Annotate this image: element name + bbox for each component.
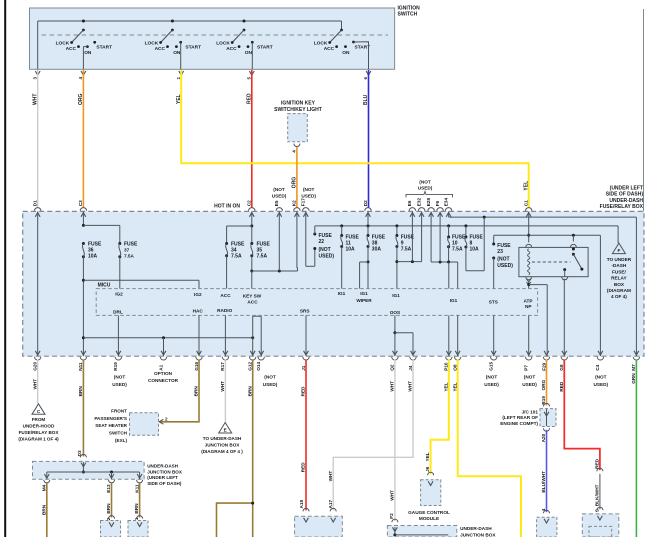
svg-text:WHT: WHT bbox=[390, 490, 395, 501]
svg-text:BRN: BRN bbox=[134, 503, 139, 514]
svg-text:J/C 101: J/C 101 bbox=[522, 409, 539, 414]
svg-text:BRN: BRN bbox=[194, 386, 199, 397]
svg-text:IGNITION KEY: IGNITION KEY bbox=[281, 101, 316, 107]
svg-text:E32: E32 bbox=[416, 197, 421, 206]
svg-text:USED): USED) bbox=[497, 263, 513, 269]
svg-text:J4: J4 bbox=[408, 365, 413, 371]
svg-text:RED: RED bbox=[246, 93, 252, 104]
svg-text:(LEFT REAR OF: (LEFT REAR OF bbox=[502, 415, 538, 420]
svg-text:(NOT: (NOT bbox=[524, 374, 536, 379]
svg-text:7.5A: 7.5A bbox=[452, 247, 463, 253]
svg-text:SEAT HEATER: SEAT HEATER bbox=[95, 423, 127, 428]
svg-text:JUNCTION BOX: JUNCTION BOX bbox=[147, 469, 183, 474]
svg-text:GRN: GRN bbox=[631, 373, 636, 384]
svg-text:E: E bbox=[224, 428, 227, 433]
svg-text:(NOT: (NOT bbox=[264, 374, 276, 379]
svg-text:NP: NP bbox=[525, 304, 532, 309]
svg-text:USED): USED) bbox=[272, 193, 287, 198]
svg-text:WHT: WHT bbox=[328, 471, 333, 482]
svg-text:SIDE OF DASH): SIDE OF DASH) bbox=[606, 192, 644, 198]
svg-text:IG2: IG2 bbox=[194, 292, 202, 297]
svg-text:HOT IN ON: HOT IN ON bbox=[214, 203, 240, 209]
svg-text:LOCK: LOCK bbox=[145, 40, 159, 46]
svg-text:A18: A18 bbox=[299, 500, 304, 509]
svg-text:D2: D2 bbox=[363, 200, 368, 206]
svg-text:O14: O14 bbox=[256, 362, 261, 371]
svg-text:FUSE/: FUSE/ bbox=[612, 269, 627, 274]
svg-text:F17: F17 bbox=[301, 198, 306, 206]
svg-text:WIPER: WIPER bbox=[356, 298, 372, 303]
svg-text:FUSE/RELAY BOX: FUSE/RELAY BOX bbox=[19, 430, 60, 435]
svg-text:Q2: Q2 bbox=[390, 364, 395, 371]
svg-text:SIDE OF DASH): SIDE OF DASH) bbox=[147, 481, 182, 486]
svg-text:C1: C1 bbox=[524, 200, 529, 206]
svg-text:J1: J1 bbox=[301, 365, 306, 371]
svg-text:30A: 30A bbox=[372, 247, 382, 253]
svg-text:10A: 10A bbox=[470, 247, 480, 253]
svg-text:BOX: BOX bbox=[614, 282, 625, 287]
svg-text:CONNECTOR: CONNECTOR bbox=[148, 378, 179, 383]
svg-text:A17: A17 bbox=[328, 500, 333, 509]
svg-text:START: START bbox=[96, 45, 112, 51]
svg-text:WHT: WHT bbox=[390, 381, 395, 392]
svg-text:E5: E5 bbox=[274, 200, 279, 206]
svg-text:RED: RED bbox=[595, 458, 600, 469]
svg-text:E13: E13 bbox=[106, 484, 111, 493]
svg-text:J6: J6 bbox=[425, 466, 430, 472]
svg-text:F29: F29 bbox=[541, 362, 546, 370]
svg-text:MICU: MICU bbox=[98, 283, 111, 289]
svg-text:FROM: FROM bbox=[32, 417, 46, 422]
svg-text:ON: ON bbox=[245, 50, 253, 56]
svg-text:DRL: DRL bbox=[113, 309, 123, 314]
svg-text:(DIAGRAM 1 OF 4): (DIAGRAM 1 OF 4) bbox=[18, 436, 59, 441]
svg-text:37: 37 bbox=[124, 248, 130, 253]
svg-text:RED: RED bbox=[301, 462, 306, 473]
svg-text:WHT: WHT bbox=[220, 381, 225, 392]
svg-text:4: 4 bbox=[292, 150, 297, 153]
svg-text:G16: G16 bbox=[194, 362, 199, 371]
svg-text:10A: 10A bbox=[346, 247, 356, 253]
svg-text:USED): USED) bbox=[112, 382, 127, 387]
svg-text:SWITCH: SWITCH bbox=[398, 12, 418, 18]
svg-text:USED): USED) bbox=[522, 382, 537, 387]
svg-text:IG2: IG2 bbox=[115, 291, 123, 296]
svg-text:M4: M4 bbox=[42, 484, 47, 491]
svg-text:10A: 10A bbox=[88, 254, 98, 260]
svg-text:LOCK: LOCK bbox=[314, 40, 328, 46]
svg-text:(NOT: (NOT bbox=[595, 374, 607, 379]
svg-text:TO UNDER-DASH: TO UNDER-DASH bbox=[203, 436, 242, 441]
svg-text:E28: E28 bbox=[426, 197, 431, 206]
svg-text:RADIO: RADIO bbox=[217, 308, 232, 313]
svg-text:USED): USED) bbox=[484, 382, 499, 387]
svg-text:USED): USED) bbox=[594, 382, 609, 387]
svg-text:LOCK: LOCK bbox=[216, 40, 230, 46]
svg-text:C3: C3 bbox=[78, 200, 83, 206]
svg-text:(NOT: (NOT bbox=[114, 374, 126, 379]
svg-text:ACC: ACC bbox=[220, 293, 231, 298]
svg-text:FUSE: FUSE bbox=[319, 233, 333, 239]
svg-text:FUSE: FUSE bbox=[470, 234, 484, 240]
svg-text:SWITCH/KEY LIGHT: SWITCH/KEY LIGHT bbox=[274, 107, 322, 113]
svg-text:SWITCH: SWITCH bbox=[109, 431, 128, 436]
svg-text:9: 9 bbox=[401, 240, 404, 246]
svg-text:BLU: BLU bbox=[363, 94, 369, 105]
svg-text:R19: R19 bbox=[113, 362, 118, 371]
svg-text:G12: G12 bbox=[248, 362, 253, 371]
svg-text:(UNDER LEFT: (UNDER LEFT bbox=[610, 185, 643, 191]
svg-text:IG1: IG1 bbox=[450, 298, 458, 303]
svg-text:BRN: BRN bbox=[106, 503, 111, 514]
svg-text:ACC: ACC bbox=[155, 46, 166, 52]
svg-text:(NOT: (NOT bbox=[486, 374, 498, 379]
svg-text:R17: R17 bbox=[220, 362, 225, 371]
svg-text:22: 22 bbox=[319, 239, 325, 245]
svg-text:ON: ON bbox=[84, 50, 92, 56]
svg-text:7.5A: 7.5A bbox=[231, 254, 242, 260]
svg-text:IG1: IG1 bbox=[360, 291, 368, 296]
svg-text:ATP: ATP bbox=[523, 298, 532, 303]
svg-text:23: 23 bbox=[497, 249, 503, 255]
svg-text:RED: RED bbox=[301, 386, 306, 397]
svg-text:ACC: ACC bbox=[66, 46, 77, 52]
svg-text:BRN: BRN bbox=[247, 386, 252, 397]
svg-text:YEL: YEL bbox=[452, 382, 457, 391]
svg-text:YEL: YEL bbox=[176, 94, 182, 104]
svg-text:WHT: WHT bbox=[32, 94, 38, 105]
svg-text:7.5A: 7.5A bbox=[124, 254, 135, 259]
svg-text:F2: F2 bbox=[389, 513, 394, 519]
svg-text:F: F bbox=[617, 248, 620, 253]
svg-text:(NOT: (NOT bbox=[273, 187, 285, 192]
svg-text:K2: K2 bbox=[292, 200, 297, 206]
svg-text:4 OF 4): 4 OF 4) bbox=[611, 294, 627, 299]
svg-text:N11: N11 bbox=[78, 362, 83, 371]
svg-text:OOS: OOS bbox=[390, 310, 400, 315]
svg-text:FUSE: FUSE bbox=[372, 234, 386, 240]
svg-text:FUSE: FUSE bbox=[452, 234, 466, 240]
svg-text:OPTION: OPTION bbox=[154, 371, 173, 376]
svg-text:A20: A20 bbox=[541, 433, 546, 442]
svg-text:ACC: ACC bbox=[324, 46, 335, 52]
svg-text:TO UNDER: TO UNDER bbox=[607, 257, 632, 262]
svg-text:G8: G8 bbox=[559, 364, 564, 371]
svg-text:USED): USED) bbox=[263, 382, 278, 387]
svg-text:P7: P7 bbox=[524, 365, 529, 371]
svg-text:SRS: SRS bbox=[300, 308, 310, 313]
svg-text:JUNCTION BOX: JUNCTION BOX bbox=[205, 443, 241, 448]
svg-text:ACC: ACC bbox=[226, 46, 237, 52]
svg-text:FUSE/RELAY BOX: FUSE/RELAY BOX bbox=[600, 204, 644, 210]
svg-text:C2: C2 bbox=[247, 200, 252, 206]
svg-text:MODULE: MODULE bbox=[419, 516, 439, 521]
svg-text:IG1: IG1 bbox=[392, 293, 400, 298]
svg-text:ACC: ACC bbox=[247, 300, 258, 305]
svg-text:RED: RED bbox=[559, 381, 564, 392]
svg-text:JUNCTION BOX: JUNCTION BOX bbox=[460, 532, 496, 537]
svg-text:ENGINE COMPT): ENGINE COMPT) bbox=[500, 421, 538, 426]
svg-text:START: START bbox=[355, 45, 371, 51]
svg-text:GAUGE CONTROL: GAUGE CONTROL bbox=[408, 510, 450, 515]
svg-text:WHT: WHT bbox=[32, 379, 37, 390]
svg-text:LOCK: LOCK bbox=[56, 40, 70, 46]
svg-text:ON: ON bbox=[342, 50, 350, 56]
svg-text:START: START bbox=[185, 45, 201, 51]
svg-text:(NOT: (NOT bbox=[319, 247, 331, 253]
svg-text:(DIAGRAM: (DIAGRAM bbox=[607, 288, 631, 293]
svg-text:ORG: ORG bbox=[78, 94, 84, 106]
svg-text:KEY SW: KEY SW bbox=[243, 293, 262, 298]
svg-text:UNDER-DASH: UNDER-DASH bbox=[147, 463, 179, 468]
svg-text:8: 8 bbox=[470, 240, 473, 246]
svg-text:(EXL): (EXL) bbox=[115, 438, 127, 443]
svg-text:YEL: YEL bbox=[443, 382, 448, 391]
svg-text:FRONT: FRONT bbox=[111, 409, 127, 414]
svg-text:ORG: ORG bbox=[541, 379, 546, 390]
svg-text:K11: K11 bbox=[134, 484, 139, 493]
svg-text:HAC: HAC bbox=[193, 309, 204, 314]
svg-text:10: 10 bbox=[452, 240, 458, 246]
svg-text:3: 3 bbox=[32, 77, 37, 80]
svg-text:11: 11 bbox=[346, 240, 352, 246]
svg-text:(NOT: (NOT bbox=[303, 187, 315, 192]
svg-text:ON: ON bbox=[173, 50, 181, 56]
svg-text:E6: E6 bbox=[407, 200, 412, 206]
svg-text:7.5A: 7.5A bbox=[257, 254, 268, 260]
svg-text:-DASH: -DASH bbox=[611, 263, 626, 268]
svg-text:RELAY: RELAY bbox=[611, 276, 627, 281]
svg-text:STS: STS bbox=[489, 300, 498, 305]
svg-text:BLK/WHT: BLK/WHT bbox=[595, 484, 600, 506]
svg-text:PASSENGER'S: PASSENGER'S bbox=[94, 416, 127, 421]
svg-text:7.5A: 7.5A bbox=[401, 247, 412, 253]
svg-text:UNDER-HOOD: UNDER-HOOD bbox=[23, 424, 55, 429]
svg-text:F6: F6 bbox=[435, 200, 440, 206]
svg-text:(NOT: (NOT bbox=[497, 257, 509, 263]
svg-text:C4: C4 bbox=[595, 364, 600, 370]
svg-text:38: 38 bbox=[372, 240, 378, 246]
svg-text:FUSE: FUSE bbox=[346, 234, 360, 240]
svg-text:IG1: IG1 bbox=[338, 291, 346, 296]
svg-text:D1: D1 bbox=[33, 200, 38, 206]
svg-text:USED): USED) bbox=[418, 186, 433, 191]
svg-text:START: START bbox=[257, 45, 273, 51]
svg-text:YEL: YEL bbox=[425, 452, 430, 461]
svg-text:USED): USED) bbox=[301, 193, 316, 198]
svg-text:(DIAGRAM 4 OF 4 ): (DIAGRAM 4 OF 4 ) bbox=[201, 449, 243, 454]
svg-text:E34: E34 bbox=[443, 197, 448, 206]
svg-text:BRN: BRN bbox=[78, 386, 83, 397]
svg-text:BRN: BRN bbox=[41, 504, 46, 515]
svg-text:2: 2 bbox=[165, 417, 168, 422]
svg-text:(NOT: (NOT bbox=[419, 179, 431, 184]
svg-text:YEL: YEL bbox=[523, 181, 529, 191]
svg-text:UNDER-DASH: UNDER-DASH bbox=[609, 198, 643, 204]
svg-text:UNDER-DASH: UNDER-DASH bbox=[460, 526, 492, 531]
svg-text:4: 4 bbox=[78, 77, 83, 80]
svg-text:BLU/WHT: BLU/WHT bbox=[541, 471, 546, 493]
svg-text:ORG: ORG bbox=[291, 177, 297, 189]
svg-text:1: 1 bbox=[176, 77, 181, 80]
svg-text:USED): USED) bbox=[319, 253, 335, 259]
svg-text:5: 5 bbox=[247, 77, 252, 80]
svg-text:M7: M7 bbox=[631, 364, 636, 371]
svg-text:G15: G15 bbox=[489, 362, 494, 371]
svg-text:G20: G20 bbox=[33, 362, 38, 371]
svg-text:WHT: WHT bbox=[408, 381, 413, 392]
svg-text:6: 6 bbox=[363, 77, 368, 80]
svg-text:(UNDER LEFT: (UNDER LEFT bbox=[147, 475, 178, 480]
svg-text:FUSE: FUSE bbox=[497, 243, 511, 249]
